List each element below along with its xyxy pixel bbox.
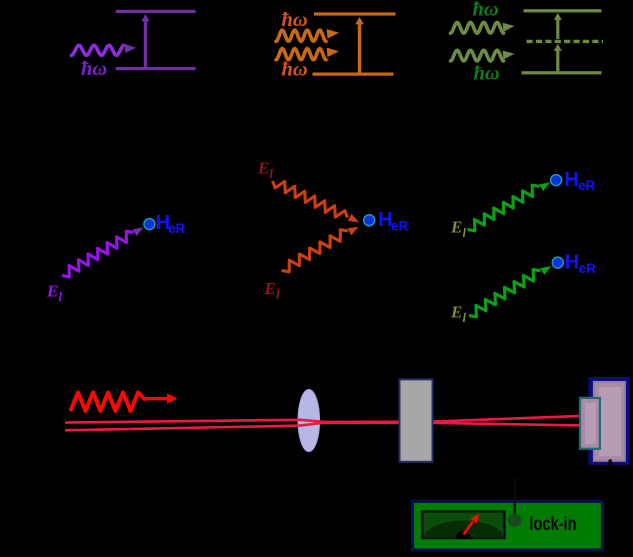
wave lower arrowhead (red) xyxy=(347,227,358,236)
svg-text:l: l xyxy=(59,290,63,304)
E-field wave (green top) xyxy=(468,185,540,231)
svg-text:l: l xyxy=(463,311,467,325)
meter display xyxy=(422,511,504,538)
photon wave 2 arrowhead (orange) xyxy=(327,48,339,58)
svg-text:E: E xyxy=(450,303,462,322)
wave arrowhead (middle purple) xyxy=(132,227,143,236)
level line upper (purple) xyxy=(116,10,196,13)
photon wave 1 arrowhead (orange) xyxy=(327,29,339,38)
svg-text:ħω: ħω xyxy=(282,9,308,31)
transition arrow upper (green) xyxy=(556,19,559,40)
wave upper arrowhead (red) xyxy=(348,214,359,222)
photon wave 2 arrowhead (green) xyxy=(503,51,515,60)
level line lower (purple) xyxy=(116,67,196,70)
svg-text:ħω: ħω xyxy=(473,0,499,21)
E-field wave (green bottom) xyxy=(469,270,541,317)
photodiode highlight xyxy=(585,403,596,444)
svg-text:l: l xyxy=(270,167,274,181)
meter needle xyxy=(464,522,474,535)
E-field wave upper (red) xyxy=(273,181,348,218)
wave arrowhead (green top) xyxy=(539,182,550,191)
level line upper (orange) xyxy=(314,12,396,15)
electron dot 3 xyxy=(551,175,562,186)
electron dot 1 xyxy=(144,219,155,230)
svg-text:E: E xyxy=(46,282,58,301)
laser pulse arrow line xyxy=(145,397,170,401)
photon wave 2 (green) xyxy=(451,50,504,61)
meter pivot xyxy=(455,531,470,539)
electron dot 2 xyxy=(364,215,375,226)
svg-text:ħω: ħω xyxy=(282,58,308,80)
detector outer (navy) xyxy=(589,377,630,465)
svg-text:H: H xyxy=(564,169,578,191)
photon wave 2 (orange) xyxy=(276,49,326,60)
detector wire stub xyxy=(609,460,612,466)
svg-text:eR: eR xyxy=(391,218,409,233)
svg-text:eR: eR xyxy=(578,178,596,193)
virtual level dashed (green) xyxy=(527,40,604,43)
svg-text:H: H xyxy=(565,252,579,274)
detector inner (mauve) xyxy=(594,382,625,461)
photon wave hw (purple) xyxy=(72,45,124,55)
lens xyxy=(298,390,320,452)
beam upper xyxy=(65,416,581,423)
sample (gray) xyxy=(400,379,433,461)
svg-text:E: E xyxy=(450,218,462,237)
svg-text:eR: eR xyxy=(168,221,186,236)
level line lower (orange) xyxy=(313,73,394,76)
E-field wave lower (red) xyxy=(282,230,349,272)
transition arrow (purple) xyxy=(144,20,147,68)
wave arrowhead (green bottom) xyxy=(540,266,551,275)
svg-text:lock-in: lock-in xyxy=(530,513,577,535)
detector inner highlight xyxy=(599,387,621,456)
svg-text:l: l xyxy=(463,226,467,240)
photodiode (teal-bordered) xyxy=(580,398,600,449)
level line upper (green) xyxy=(524,9,602,12)
transition arrow (orange) xyxy=(358,23,361,73)
E-field wave (middle purple) xyxy=(62,231,134,277)
electron dot 4 xyxy=(552,257,563,268)
svg-text:eR: eR xyxy=(579,261,597,276)
connector terminal xyxy=(508,514,522,527)
photon wave 1 arrowhead (green) xyxy=(503,23,515,32)
photon wave 1 (orange) xyxy=(276,30,326,41)
transition arrow lower (green) xyxy=(556,50,559,72)
svg-text:E: E xyxy=(264,279,276,298)
svg-text:l: l xyxy=(276,288,280,302)
laser pulse zigzag (red) xyxy=(71,393,145,412)
beam lower xyxy=(65,423,581,431)
photon wave 1 (green) xyxy=(451,22,504,33)
laser pulse arrowhead xyxy=(167,393,178,403)
photon wave arrowhead (purple) xyxy=(125,44,136,53)
svg-text:ħω: ħω xyxy=(81,58,107,80)
meter gauge dome xyxy=(424,521,503,539)
lock-in amplifier box xyxy=(413,501,603,550)
svg-text:ħω: ħω xyxy=(474,63,500,85)
wire detector to lock-in xyxy=(514,478,516,520)
meter needle arrowhead xyxy=(470,514,479,524)
svg-text:E: E xyxy=(257,159,269,178)
level line lower (green) xyxy=(522,71,602,74)
